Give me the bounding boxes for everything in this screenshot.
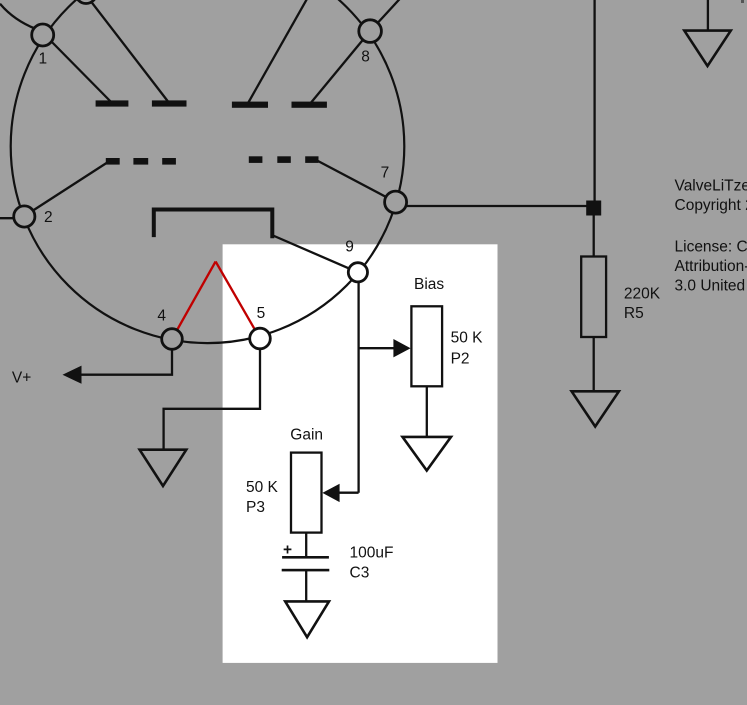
pin 4 [162, 329, 183, 350]
anode bar A4 [292, 102, 327, 108]
V+ arrowhead [63, 366, 82, 384]
wire cathode to pin 9 [273, 236, 358, 273]
svg-text:220K: 220K [624, 286, 661, 303]
wire R5 to ground [593, 337, 595, 393]
svg-text:License: Creative: License: Creative [675, 239, 747, 256]
pin 1 [32, 24, 54, 46]
wire pin7 to junction [396, 205, 595, 207]
junction node [586, 201, 601, 216]
wire offscreen to anode A3 [248, 0, 316, 103]
capacitor C3 top plate [282, 556, 329, 559]
capacitor C3 bottom plate [282, 569, 330, 572]
grid dash R2 [277, 156, 291, 163]
wire pin2 to grid L [25, 163, 107, 216]
ground below pin5 [140, 450, 187, 486]
pin 9 [348, 263, 367, 282]
top pin stub [76, 0, 97, 4]
svg-text:1: 1 [39, 51, 48, 68]
svg-text:C3: C3 [350, 565, 370, 582]
svg-text:+: + [283, 542, 292, 559]
grid dash L1 [106, 158, 120, 165]
grid dash R1 [249, 156, 263, 163]
wire pin1 to anode A1 [44, 34, 111, 102]
tube envelope U1 [11, 0, 405, 343]
svg-text:3.0 United Stat: 3.0 United Stat [675, 278, 747, 295]
wire top pin to anode A2 [86, 0, 168, 102]
ground below R5 [572, 391, 619, 426]
potentiometer P2 [411, 306, 442, 386]
svg-text:P2: P2 [451, 351, 470, 368]
wire from top left corner to pin 1 [0, 4, 36, 29]
resistor R5 [581, 257, 606, 338]
wire pin8 to anode A4 [311, 31, 370, 103]
svg-text:8: 8 [361, 49, 370, 66]
svg-text:Gain: Gain [290, 427, 323, 444]
ground top right [684, 31, 731, 66]
grid dash L3 [162, 158, 176, 165]
svg-text:5: 5 [257, 305, 266, 322]
svg-text:50 K: 50 K [451, 330, 484, 347]
wire junction to R5 [593, 215, 595, 257]
pin 7 [385, 191, 407, 213]
red heater wire apex to pin5 [216, 262, 260, 339]
svg-text:50 K: 50 K [246, 479, 279, 496]
svg-text:Attribution-Non: Attribution-Non [675, 258, 747, 275]
cathode bracket [154, 210, 272, 239]
speck top right [741, 0, 744, 3]
svg-text:7: 7 [381, 165, 390, 182]
arrowhead into P2 [393, 339, 410, 357]
pin 2 [14, 206, 35, 227]
wire top right to ground [707, 0, 709, 30]
wire pin2 to left edge [0, 217, 24, 219]
wire vertical supply from top [593, 0, 595, 208]
wire pin4 to V+ [80, 339, 172, 375]
wire to P3 wiper [338, 492, 359, 494]
white panel [223, 244, 498, 663]
svg-text:V+: V+ [12, 370, 31, 387]
potentiometer P3 [291, 453, 322, 533]
wire P2 to ground [426, 386, 428, 438]
wire P3 to C3 [305, 533, 307, 557]
wire C3 to ground [305, 571, 307, 602]
wire pin8 up right offscreen [370, 0, 401, 31]
wire pin9 down [357, 272, 359, 492]
svg-text:4: 4 [157, 308, 166, 325]
wire branch to P2 wiper [358, 347, 397, 349]
anode bar A2 [152, 100, 187, 106]
anode bar A3 [232, 102, 268, 108]
red heater wire pin4 to apex [172, 262, 216, 340]
ground below C3 [285, 601, 329, 637]
svg-text:100uF: 100uF [350, 545, 394, 562]
grid dash R3 [305, 156, 318, 163]
ground below P2 [403, 437, 452, 471]
svg-text:R5: R5 [624, 305, 644, 322]
svg-text:Copyright 2009: Copyright 2009 [675, 197, 747, 214]
svg-text:P3: P3 [246, 499, 265, 516]
svg-text:2: 2 [44, 209, 53, 226]
svg-text:Bias: Bias [414, 276, 444, 293]
wire pin7 to grid R [318, 161, 396, 202]
wire pin5 to ground [164, 339, 260, 452]
pin 8 [359, 20, 382, 43]
arrowhead into P3 [322, 484, 339, 502]
pin 5 [250, 328, 271, 349]
svg-text:9: 9 [345, 239, 354, 256]
anode bar A1 [96, 100, 129, 106]
svg-text:ValveLiTzer: ValveLiTzer [675, 178, 747, 195]
grid dash L2 [133, 158, 148, 165]
